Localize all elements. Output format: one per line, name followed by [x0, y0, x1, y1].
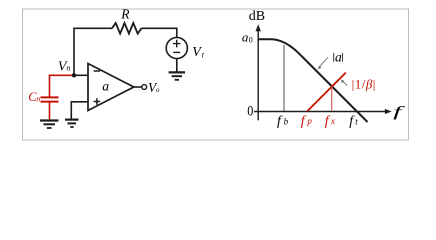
- svg-text:a: a: [102, 78, 109, 93]
- svg-text:0: 0: [247, 104, 253, 120]
- svg-text:b: b: [284, 116, 289, 126]
- svg-text:n: n: [66, 63, 70, 72]
- svg-text:R: R: [120, 6, 130, 21]
- svg-text:p: p: [306, 116, 312, 126]
- svg-text:dB: dB: [249, 9, 265, 24]
- svg-text:0: 0: [249, 35, 253, 44]
- svg-text:o: o: [156, 85, 160, 94]
- svg-text:|1/β|: |1/β|: [352, 77, 376, 92]
- svg-text:x: x: [330, 116, 335, 126]
- svg-text:V: V: [192, 45, 202, 60]
- svg-text:a: a: [335, 50, 342, 65]
- svg-text:n: n: [36, 95, 40, 104]
